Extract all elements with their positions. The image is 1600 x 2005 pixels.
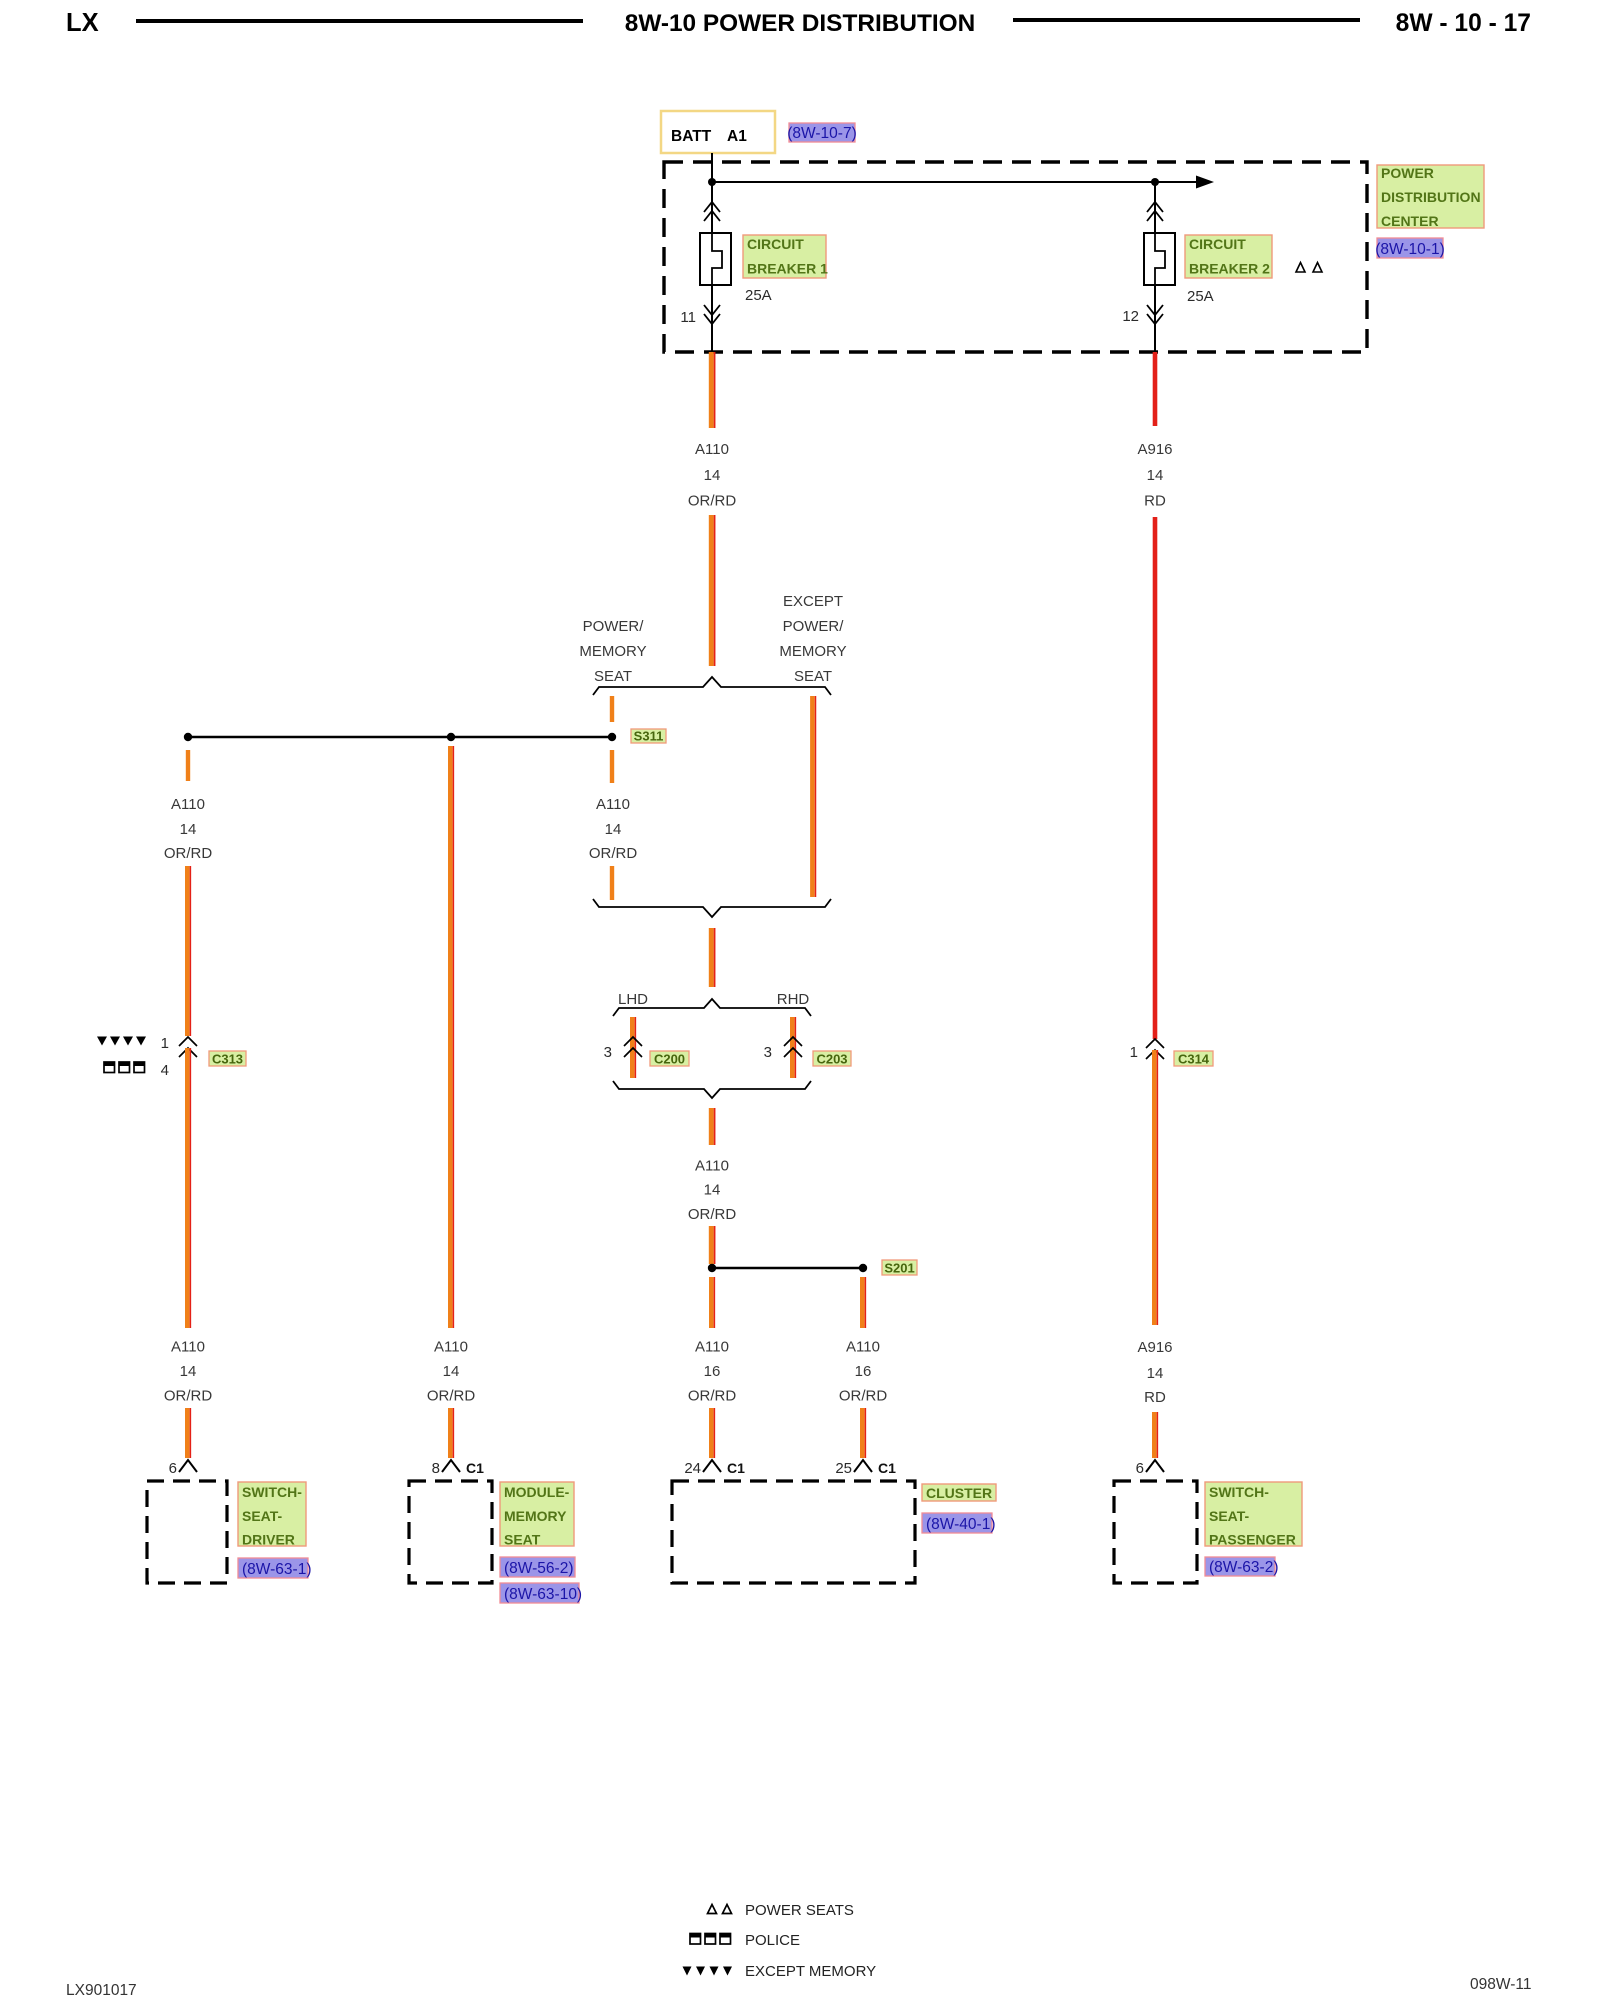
bus arrow bbox=[1196, 176, 1214, 189]
pin 6 chevron (passenger) bbox=[1146, 1460, 1164, 1472]
wire down to C313 bbox=[187, 866, 190, 1036]
svg-text:SEAT-: SEAT- bbox=[1209, 1508, 1250, 1524]
svg-text:A110: A110 bbox=[596, 796, 630, 813]
power distribution center bbox=[664, 153, 1484, 352]
svg-text:6: 6 bbox=[1136, 1460, 1144, 1477]
svg-text:(8W-40-1): (8W-40-1) bbox=[926, 1516, 995, 1533]
svg-text:DRIVER: DRIVER bbox=[242, 1532, 295, 1548]
LHD/RHD split brace bbox=[613, 999, 811, 1016]
battery box BATT A1 bbox=[661, 111, 775, 153]
wire A110 14 OR/RD from pin 11 bbox=[711, 352, 714, 428]
PDC dashed enclosure bbox=[664, 162, 1367, 352]
wire to module pin 8 bbox=[450, 1408, 453, 1458]
svg-text:14: 14 bbox=[180, 1363, 197, 1380]
svg-text:POWER/: POWER/ bbox=[583, 618, 645, 635]
svg-text:S201: S201 bbox=[884, 1261, 914, 1276]
svg-text:A110: A110 bbox=[695, 1158, 729, 1175]
svg-text:14: 14 bbox=[1147, 467, 1164, 484]
svg-text:C314: C314 bbox=[1178, 1052, 1210, 1067]
wire A916 14 RD from pin 12 bbox=[1153, 352, 1158, 426]
svg-text:DISTRIBUTION: DISTRIBUTION bbox=[1381, 189, 1481, 205]
svg-text:OR/RD: OR/RD bbox=[688, 1206, 737, 1223]
connector label C314 bbox=[1174, 1051, 1213, 1067]
svg-text:A1: A1 bbox=[727, 128, 747, 145]
wire label A110 14 OR/RD (driver bottom) bbox=[164, 1339, 213, 1405]
svg-text:A916: A916 bbox=[1137, 1339, 1172, 1356]
page link (8W-40-1) bbox=[922, 1513, 995, 1533]
wire label A110 14 OR/RD (driver top) bbox=[164, 796, 213, 862]
svg-text:CLUSTER: CLUSTER bbox=[926, 1485, 992, 1501]
splice node on cluster feed bbox=[708, 1264, 716, 1272]
label SWITCH-SEAT-DRIVER bbox=[238, 1482, 306, 1548]
svg-text:OR/RD: OR/RD bbox=[427, 1388, 476, 1405]
right column bbox=[1130, 352, 1213, 1458]
svg-text:CIRCUIT: CIRCUIT bbox=[1189, 236, 1246, 252]
wire below S201 (cluster 25) bbox=[862, 1277, 865, 1328]
svg-text:16: 16 bbox=[704, 1363, 721, 1380]
branch wire to merge brace bbox=[610, 866, 614, 900]
svg-text:14: 14 bbox=[1147, 1365, 1164, 1382]
police marker squares bbox=[104, 1062, 145, 1073]
header bbox=[66, 9, 1531, 37]
svg-text:14: 14 bbox=[443, 1363, 460, 1380]
page link (8W-10-7) bbox=[789, 123, 855, 142]
svg-text:A110: A110 bbox=[695, 441, 729, 458]
node at breaker 2 feed bbox=[1151, 178, 1159, 186]
splice label S311 bbox=[631, 729, 666, 744]
svg-text:LX901017: LX901017 bbox=[66, 1982, 137, 1999]
svg-text:C1: C1 bbox=[727, 1460, 745, 1476]
legend power seats triangles bbox=[708, 1905, 732, 1914]
node at driver column bbox=[184, 733, 192, 741]
svg-text:1: 1 bbox=[161, 1035, 169, 1052]
bottom components bbox=[147, 1460, 1302, 1603]
wire continues to split bbox=[711, 515, 714, 666]
svg-text:(8W-63-2): (8W-63-2) bbox=[1209, 1559, 1278, 1576]
svg-text:BATT: BATT bbox=[671, 128, 712, 145]
splice S311 node bbox=[608, 733, 616, 741]
circuit breaker CB1 body bbox=[700, 233, 731, 285]
pin 24 chevron (cluster) bbox=[703, 1460, 721, 1472]
svg-text:RHD: RHD bbox=[777, 991, 810, 1008]
merge brace bottom bbox=[593, 899, 831, 917]
svg-text:MEMORY: MEMORY bbox=[579, 643, 646, 660]
svg-text:C203: C203 bbox=[816, 1052, 847, 1067]
splice S201 node bbox=[859, 1264, 867, 1272]
svg-text:S311: S311 bbox=[634, 729, 664, 744]
svg-text:A916: A916 bbox=[1137, 441, 1172, 458]
wire down to C314 bbox=[1153, 517, 1158, 1039]
svg-text:CENTER: CENTER bbox=[1381, 213, 1439, 229]
connector C203 chevrons bbox=[784, 1037, 802, 1057]
splice bus wire S201 bbox=[716, 1267, 859, 1270]
wire below driver node bbox=[186, 750, 190, 781]
connector C313 chevrons bbox=[179, 1037, 197, 1057]
connector chevrons above circuit breaker 2 bbox=[1147, 202, 1163, 221]
svg-text:A110: A110 bbox=[695, 1339, 729, 1356]
wire below node (cluster 24) bbox=[711, 1277, 714, 1328]
legend except memory triangles bbox=[683, 1967, 733, 1976]
branch wire power/memory seat bbox=[610, 696, 614, 722]
page link (8W-56-2) bbox=[500, 1557, 575, 1577]
svg-text:3: 3 bbox=[604, 1044, 612, 1061]
connector label C200 bbox=[650, 1051, 689, 1067]
svg-text:POWER SEATS: POWER SEATS bbox=[745, 1902, 854, 1919]
svg-text:14: 14 bbox=[180, 821, 197, 838]
svg-text:RD: RD bbox=[1144, 493, 1166, 510]
branch wire below S311 bbox=[610, 750, 614, 783]
branch wire except power/memory seat bbox=[812, 696, 815, 897]
legend police squares bbox=[690, 1934, 731, 1945]
RHD branch wire bbox=[792, 1017, 795, 1078]
label CIRCUIT BREAKER 2 bbox=[1185, 235, 1272, 278]
left columns bbox=[97, 746, 475, 1458]
wire to LHD/RHD split bbox=[711, 928, 714, 987]
wire CB2 to pin 12 bbox=[1154, 285, 1156, 352]
wire label A110 14 OR/RD bbox=[688, 441, 737, 510]
svg-text:SEAT: SEAT bbox=[594, 668, 632, 685]
svg-text:OR/RD: OR/RD bbox=[164, 1388, 213, 1405]
svg-text:A110: A110 bbox=[434, 1339, 468, 1356]
svg-text:POWER/: POWER/ bbox=[783, 618, 845, 635]
wire breaker2 feed bbox=[1154, 182, 1156, 233]
svg-text:RD: RD bbox=[1144, 1389, 1166, 1406]
svg-text:24: 24 bbox=[684, 1460, 701, 1477]
wire label A110 14 OR/RD (branch) bbox=[589, 796, 638, 862]
svg-text:8W - 10 - 17: 8W - 10 - 17 bbox=[1396, 10, 1531, 37]
wire to switch-seat-driver pin 6 bbox=[187, 1408, 190, 1458]
power seats option triangles bbox=[1296, 263, 1322, 273]
svg-text:SEAT: SEAT bbox=[794, 668, 832, 685]
pin 6 chevron (driver) bbox=[179, 1460, 197, 1472]
wire to cluster pin 24 bbox=[711, 1408, 714, 1458]
svg-text:BREAKER 1: BREAKER 1 bbox=[747, 261, 828, 277]
svg-text:OR/RD: OR/RD bbox=[589, 845, 638, 862]
LHD/RHD merge brace bbox=[613, 1081, 811, 1098]
svg-text:8: 8 bbox=[432, 1460, 440, 1477]
svg-text:14: 14 bbox=[704, 467, 721, 484]
svg-text:SWITCH-: SWITCH- bbox=[242, 1484, 302, 1500]
splice bus wire to left columns bbox=[188, 736, 608, 739]
svg-text:C1: C1 bbox=[878, 1460, 896, 1476]
page link (8W-63-10) bbox=[500, 1583, 582, 1603]
wire label A916 14 RD (top) bbox=[1137, 441, 1172, 510]
svg-text:A110: A110 bbox=[171, 1339, 205, 1356]
svg-text:25A: 25A bbox=[745, 287, 772, 304]
svg-text:098W-11: 098W-11 bbox=[1470, 1976, 1531, 1993]
svg-text:(8W-63-10): (8W-63-10) bbox=[504, 1586, 582, 1603]
wire below module node bbox=[450, 746, 453, 1328]
connector C314 chevrons bbox=[1146, 1039, 1164, 1059]
label SWITCH-SEAT-PASSENGER bbox=[1205, 1482, 1302, 1548]
connector chevrons above circuit breaker 1 bbox=[704, 202, 720, 221]
circuit breaker CB2 body bbox=[1144, 233, 1175, 285]
splice label S201 bbox=[882, 1260, 917, 1276]
svg-text:OR/RD: OR/RD bbox=[164, 845, 213, 862]
header rule left bbox=[136, 19, 583, 23]
svg-text:MEMORY: MEMORY bbox=[504, 1508, 567, 1524]
legend and footer bbox=[66, 1902, 1531, 1999]
svg-text:POWER: POWER bbox=[1381, 165, 1434, 181]
connector label C313 bbox=[209, 1051, 246, 1067]
svg-text:POLICE: POLICE bbox=[745, 1932, 800, 1949]
svg-text:C1: C1 bbox=[466, 1460, 484, 1476]
pin 11 chevrons bbox=[704, 305, 720, 324]
svg-text:14: 14 bbox=[605, 821, 622, 838]
wire label A916 14 RD (bottom) bbox=[1137, 1339, 1172, 1406]
svg-text:25A: 25A bbox=[1187, 288, 1214, 305]
wire label A110 16 OR/RD (pin25) bbox=[839, 1339, 888, 1405]
wire to splice S201 bbox=[711, 1226, 714, 1264]
svg-text:LHD: LHD bbox=[618, 991, 648, 1008]
svg-text:14: 14 bbox=[704, 1182, 721, 1199]
svg-text:(8W-10-7): (8W-10-7) bbox=[787, 125, 856, 142]
svg-text:OR/RD: OR/RD bbox=[688, 1388, 737, 1405]
node at breaker 1 feed bbox=[708, 178, 716, 186]
svg-text:C313: C313 bbox=[212, 1052, 243, 1067]
wire below C313 bbox=[187, 1048, 190, 1328]
page link (8W-63-2) bbox=[1205, 1557, 1278, 1576]
svg-text:OR/RD: OR/RD bbox=[688, 493, 737, 510]
svg-text:11: 11 bbox=[680, 309, 696, 326]
svg-text:A110: A110 bbox=[171, 796, 205, 813]
svg-text:A110: A110 bbox=[846, 1339, 880, 1356]
connector label C203 bbox=[813, 1051, 851, 1067]
svg-text:MODULE-: MODULE- bbox=[504, 1484, 570, 1500]
svg-text:C200: C200 bbox=[654, 1052, 685, 1067]
wire to cluster pin 25 bbox=[862, 1408, 865, 1458]
svg-text:SEAT-: SEAT- bbox=[242, 1508, 283, 1524]
svg-text:25: 25 bbox=[835, 1460, 852, 1477]
label MODULE-MEMORY SEAT bbox=[500, 1482, 574, 1548]
svg-text:3: 3 bbox=[764, 1044, 772, 1061]
svg-text:6: 6 bbox=[169, 1460, 177, 1477]
wire from battery to bus bbox=[711, 153, 713, 233]
PDC page link (8W-10-1) bbox=[1375, 238, 1444, 258]
cluster dashed box bbox=[672, 1481, 915, 1583]
svg-text:LX: LX bbox=[66, 9, 99, 37]
svg-text:EXCEPT: EXCEPT bbox=[783, 593, 843, 610]
svg-text:PASSENGER: PASSENGER bbox=[1209, 1532, 1296, 1548]
header rule right bbox=[1013, 18, 1360, 22]
battery feed bbox=[661, 111, 857, 153]
label CLUSTER bbox=[922, 1484, 996, 1501]
except memory marker triangles bbox=[97, 1037, 146, 1046]
svg-text:BREAKER 2: BREAKER 2 bbox=[1189, 261, 1270, 277]
label CIRCUIT BREAKER 1 bbox=[743, 235, 828, 278]
svg-text:(8W-10-1): (8W-10-1) bbox=[1375, 241, 1444, 258]
pin 25 chevron (cluster) bbox=[854, 1460, 872, 1472]
PDC label POWER DISTRIBUTION CENTER bbox=[1377, 165, 1484, 229]
wire label A110 14 OR/RD (mid) bbox=[688, 1158, 737, 1224]
wire to switch-seat-passenger pin 6 bbox=[1154, 1412, 1157, 1458]
option label POWER/MEMORY SEAT bbox=[579, 618, 646, 685]
wire label A110 14 OR/RD (module) bbox=[427, 1339, 476, 1405]
svg-text:12: 12 bbox=[1122, 308, 1139, 325]
svg-text:8W-10 POWER DISTRIBUTION: 8W-10 POWER DISTRIBUTION bbox=[625, 10, 975, 37]
node at module column bbox=[447, 733, 455, 741]
center column bbox=[184, 352, 917, 1458]
switch-seat-driver dashed box bbox=[147, 1481, 227, 1583]
pin 12 chevrons bbox=[1147, 305, 1163, 324]
wire CB1 to pin 11 bbox=[711, 285, 713, 352]
svg-text:(8W-63-1): (8W-63-1) bbox=[242, 1561, 311, 1578]
wire below C314 bbox=[1154, 1050, 1157, 1325]
page link (8W-63-1) bbox=[238, 1558, 311, 1578]
wire below merge bbox=[711, 1108, 714, 1145]
svg-text:SWITCH-: SWITCH- bbox=[1209, 1484, 1269, 1500]
split brace top bbox=[593, 677, 831, 695]
svg-text:OR/RD: OR/RD bbox=[839, 1388, 888, 1405]
module-memory seat dashed box bbox=[409, 1481, 492, 1583]
switch-seat-passenger dashed box bbox=[1114, 1481, 1197, 1583]
svg-text:MEMORY: MEMORY bbox=[779, 643, 846, 660]
svg-text:CIRCUIT: CIRCUIT bbox=[747, 236, 804, 252]
connector C200 chevrons bbox=[624, 1037, 642, 1057]
svg-text:(8W-56-2): (8W-56-2) bbox=[504, 1560, 573, 1577]
option label EXCEPT POWER/MEMORY SEAT bbox=[779, 593, 846, 685]
svg-text:SEAT: SEAT bbox=[504, 1532, 541, 1548]
svg-text:4: 4 bbox=[161, 1062, 169, 1079]
svg-text:EXCEPT MEMORY: EXCEPT MEMORY bbox=[745, 1963, 876, 1980]
svg-text:1: 1 bbox=[1130, 1044, 1138, 1061]
bus wire bbox=[712, 181, 1197, 183]
pin 8 chevron (module) bbox=[442, 1460, 460, 1472]
svg-text:16: 16 bbox=[855, 1363, 872, 1380]
wire label A110 16 OR/RD (pin24) bbox=[688, 1339, 737, 1405]
LHD branch wire bbox=[632, 1017, 635, 1078]
